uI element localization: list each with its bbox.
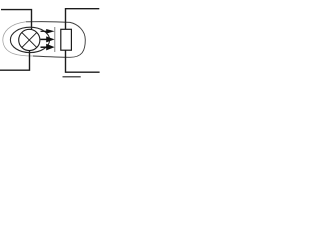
wire bottom-right pin <box>66 50 100 72</box>
light arrow 1 (top) <box>41 29 55 34</box>
outer envelope egg outline left arc <box>3 22 33 56</box>
light arrow 2 (middle) <box>41 36 55 42</box>
partition line <box>54 27 56 52</box>
light arrow 3 (bottom) <box>41 44 55 51</box>
lamp X stroke 2 <box>22 33 37 48</box>
wire bottom-left pin <box>0 51 30 71</box>
photoresistor body R <box>61 29 72 50</box>
bottom stub line <box>63 76 81 78</box>
wire top-left pin <box>1 10 32 30</box>
outer envelope egg outline right arc <box>26 22 85 58</box>
wire top-right pin <box>66 9 100 30</box>
lamp circle <box>19 29 40 50</box>
lamp X stroke 1 <box>22 33 37 48</box>
lamp envelope inner ellipse <box>10 27 49 52</box>
